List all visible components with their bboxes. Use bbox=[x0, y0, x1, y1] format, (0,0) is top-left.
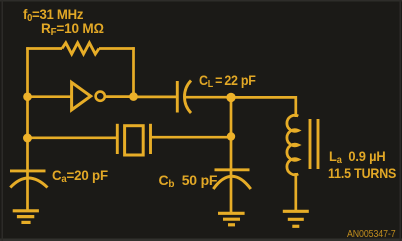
node: junction crystal branch bbox=[23, 134, 32, 143]
inductor core bar 2 bbox=[317, 119, 320, 169]
value label CL = 22 pF bbox=[199, 72, 256, 90]
crystal Y1 left plate bbox=[116, 124, 119, 154]
capacitor Cb curved plate bbox=[213, 176, 251, 189]
node: junction inverter input bbox=[23, 92, 32, 101]
wire: coil to ground bbox=[294, 173, 297, 211]
value label Cb 50 pF bbox=[159, 172, 218, 190]
wire: feedback top segment right bbox=[99, 47, 135, 50]
wire: Cb vertical bbox=[230, 98, 233, 213]
value label La 0.9 uH bbox=[329, 148, 386, 166]
resistor RF zigzag bbox=[62, 43, 99, 54]
capacitor Cb top plate bbox=[215, 168, 250, 171]
wire: junction to right corner and down to coil bbox=[231, 97, 296, 115]
node: junction CL right bbox=[226, 93, 235, 102]
capacitor CL left plate bbox=[176, 81, 179, 113]
node: junction crystal/Cb bbox=[227, 132, 235, 140]
wire: feedback loop left vertical (top corner down to Ca) bbox=[26, 47, 29, 211]
value label Ca = 20 pF bbox=[52, 167, 108, 185]
ground (Ca) bbox=[13, 209, 39, 212]
wire: coil top stub bbox=[294, 114, 297, 117]
wire: CL to junction bbox=[185, 96, 231, 99]
inverter bubble bbox=[96, 92, 105, 101]
figure number AN005347-7 bbox=[347, 229, 396, 240]
wire: crystal left bbox=[28, 136, 118, 139]
ground (Cb) bbox=[218, 212, 245, 215]
capacitor Ca curved plate bbox=[10, 178, 47, 188]
crystal Y1 right plate bbox=[149, 124, 152, 154]
crystal Y1 body rect bbox=[125, 126, 144, 155]
value label 11.5 TURNS bbox=[328, 165, 396, 181]
value label RF = 10 MOhm bbox=[41, 20, 104, 38]
wire: feedback top segment left bbox=[26, 47, 62, 50]
wire: feedback right vertical bbox=[132, 47, 135, 96]
inductor core bar 1 bbox=[309, 119, 312, 169]
wire: crystal right to Cb branch bbox=[151, 136, 232, 139]
capacitor Ca top plate bbox=[10, 169, 46, 172]
capacitor CL right curved plate bbox=[184, 81, 191, 114]
wire: output to CL bbox=[134, 96, 178, 99]
node: junction inverter output bbox=[129, 92, 138, 101]
value label f0 = 31 MHz bbox=[23, 6, 83, 24]
ground (inductor) bbox=[283, 210, 309, 213]
inductor La coil loops bbox=[287, 115, 298, 175]
wire: inverter input bbox=[28, 95, 73, 98]
wire: inverter output bbox=[105, 95, 134, 98]
op-amp inverter U1 triangle bbox=[72, 82, 91, 110]
